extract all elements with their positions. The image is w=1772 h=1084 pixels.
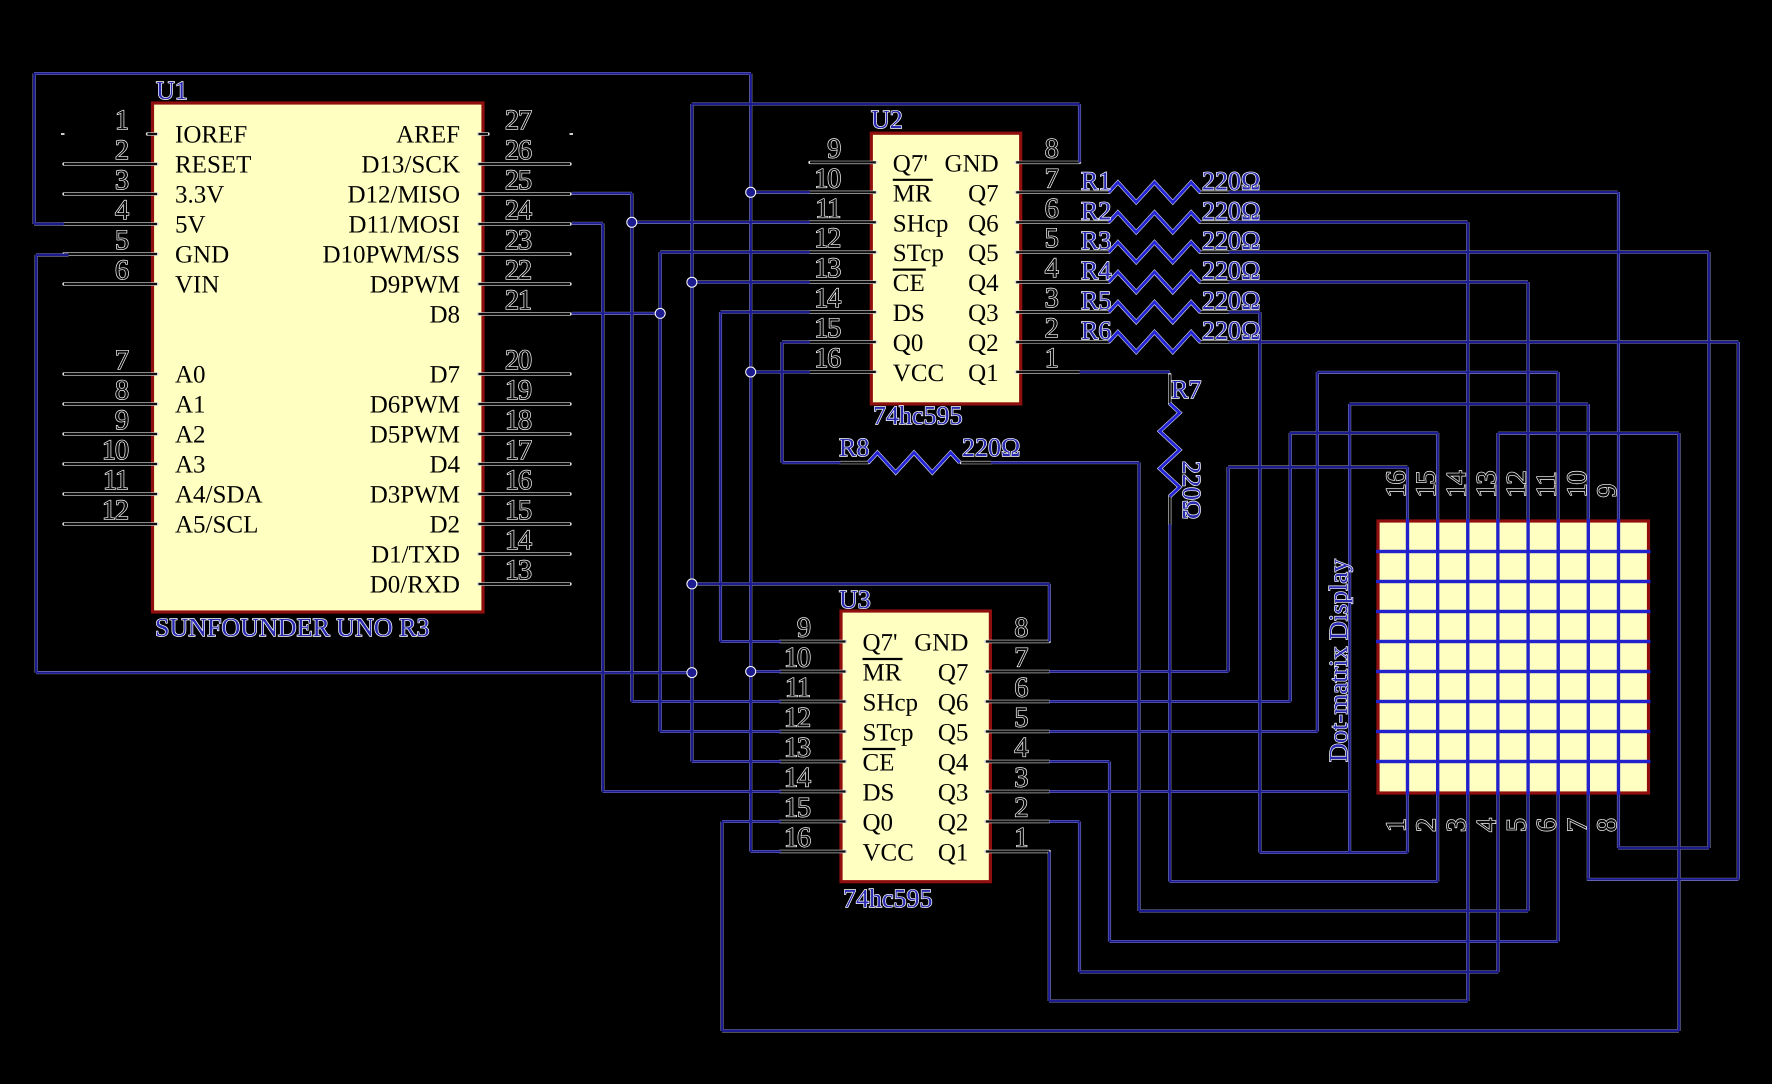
svg-text:D3PWM: D3PWM: [370, 482, 460, 509]
svg-text:15: 15: [814, 313, 840, 344]
svg-text:D10PWM/SS: D10PWM/SS: [322, 242, 460, 269]
svg-text:R6: R6: [1081, 316, 1111, 345]
svg-text:4: 4: [1471, 818, 1502, 832]
svg-text:D9PWM: D9PWM: [370, 272, 460, 299]
svg-text:U3: U3: [839, 585, 871, 614]
svg-text:4: 4: [1045, 253, 1059, 284]
svg-text:5: 5: [1502, 819, 1533, 832]
svg-text:13: 13: [784, 733, 810, 764]
svg-text:13: 13: [1471, 472, 1502, 498]
svg-text:A1: A1: [175, 392, 206, 419]
svg-text:2: 2: [115, 135, 128, 166]
svg-text:1: 1: [1045, 343, 1058, 374]
svg-text:Q7': Q7': [893, 150, 928, 177]
svg-text:VCC: VCC: [863, 840, 914, 867]
svg-text:D1/TXD: D1/TXD: [371, 542, 460, 569]
svg-text:9: 9: [115, 405, 128, 436]
svg-text:4: 4: [115, 195, 129, 226]
svg-text:13: 13: [814, 253, 840, 284]
svg-text:9: 9: [1592, 485, 1623, 498]
svg-text:A2: A2: [175, 422, 206, 449]
svg-text:1: 1: [115, 105, 128, 136]
svg-text:220Ω: 220Ω: [1177, 461, 1206, 519]
svg-text:Q5: Q5: [938, 720, 969, 747]
svg-text:GND: GND: [175, 242, 229, 269]
svg-text:Q1: Q1: [938, 840, 969, 867]
svg-text:4: 4: [1014, 733, 1028, 764]
svg-text:15: 15: [1411, 472, 1442, 498]
svg-text:16: 16: [814, 343, 841, 374]
svg-text:7: 7: [1014, 643, 1028, 674]
svg-text:SHcp: SHcp: [893, 210, 949, 237]
svg-text:Dot-matrix Display: Dot-matrix Display: [1324, 559, 1353, 762]
svg-text:7: 7: [1562, 818, 1593, 832]
svg-text:220Ω: 220Ω: [1202, 316, 1260, 345]
svg-text:Q5: Q5: [968, 240, 999, 267]
svg-text:16: 16: [505, 465, 532, 496]
svg-text:Q7: Q7: [968, 180, 999, 207]
svg-text:A0: A0: [175, 362, 206, 389]
svg-text:MR: MR: [893, 180, 932, 207]
svg-text:12: 12: [784, 703, 810, 734]
svg-text:12: 12: [814, 223, 840, 254]
svg-text:11: 11: [815, 193, 840, 224]
svg-text:D12/MISO: D12/MISO: [347, 182, 460, 209]
svg-text:10: 10: [102, 435, 128, 466]
svg-text:15: 15: [784, 793, 810, 824]
svg-text:Q0: Q0: [893, 330, 924, 357]
svg-text:D0/RXD: D0/RXD: [370, 572, 460, 599]
svg-text:1: 1: [1014, 823, 1027, 854]
svg-text:6: 6: [1014, 673, 1028, 704]
svg-text:R3: R3: [1081, 226, 1111, 255]
svg-text:5: 5: [1014, 703, 1027, 734]
svg-text:10: 10: [814, 163, 840, 194]
svg-text:21: 21: [505, 285, 531, 316]
svg-text:A3: A3: [175, 452, 206, 479]
svg-text:22: 22: [505, 255, 531, 286]
svg-text:27: 27: [505, 105, 532, 136]
svg-text:19: 19: [505, 375, 531, 406]
svg-text:D11/MOSI: D11/MOSI: [348, 212, 460, 239]
svg-text:25: 25: [505, 165, 531, 196]
svg-text:220Ω: 220Ω: [1202, 166, 1260, 195]
svg-text:R4: R4: [1081, 256, 1111, 285]
svg-text:12: 12: [102, 495, 128, 526]
svg-text:220Ω: 220Ω: [1202, 196, 1260, 225]
svg-text:Q7': Q7': [863, 630, 898, 657]
svg-text:3: 3: [115, 165, 128, 196]
svg-text:23: 23: [505, 225, 531, 256]
svg-text:DS: DS: [893, 300, 925, 327]
svg-text:Q6: Q6: [968, 210, 999, 237]
svg-text:6: 6: [115, 255, 129, 286]
svg-text:11: 11: [1532, 473, 1563, 498]
svg-text:220Ω: 220Ω: [1202, 286, 1260, 315]
svg-text:GND: GND: [945, 150, 999, 177]
svg-text:11: 11: [103, 465, 128, 496]
svg-text:MR: MR: [863, 660, 902, 687]
svg-text:13: 13: [505, 555, 531, 586]
svg-text:220Ω: 220Ω: [1202, 256, 1260, 285]
svg-text:Q6: Q6: [938, 690, 969, 717]
svg-text:26: 26: [505, 135, 532, 166]
svg-text:A5/SCL: A5/SCL: [175, 512, 258, 539]
svg-text:2: 2: [1045, 313, 1058, 344]
svg-text:11: 11: [785, 673, 810, 704]
svg-text:18: 18: [505, 405, 531, 436]
svg-text:5: 5: [1045, 223, 1058, 254]
svg-text:14: 14: [784, 763, 811, 794]
svg-text:220Ω: 220Ω: [1202, 226, 1260, 255]
svg-text:8: 8: [1045, 133, 1058, 164]
svg-text:2: 2: [1411, 819, 1442, 832]
svg-text:5V: 5V: [175, 212, 206, 239]
svg-text:7: 7: [115, 345, 129, 376]
svg-text:14: 14: [505, 525, 532, 556]
svg-text:16: 16: [784, 823, 811, 854]
svg-text:220Ω: 220Ω: [962, 433, 1020, 462]
svg-text:Q1: Q1: [968, 360, 999, 387]
svg-text:D13/SCK: D13/SCK: [361, 152, 460, 179]
svg-text:3: 3: [1441, 819, 1472, 832]
svg-text:Q3: Q3: [968, 300, 999, 327]
svg-text:20: 20: [505, 345, 531, 376]
svg-text:D7: D7: [429, 362, 460, 389]
svg-text:12: 12: [1502, 472, 1533, 498]
svg-text:R1: R1: [1081, 166, 1111, 195]
svg-text:SHcp: SHcp: [863, 690, 919, 717]
svg-text:2: 2: [1014, 793, 1027, 824]
svg-text:8: 8: [1014, 613, 1027, 644]
svg-text:STcp: STcp: [893, 240, 944, 267]
svg-text:D6PWM: D6PWM: [370, 392, 460, 419]
svg-text:Q4: Q4: [968, 270, 999, 297]
svg-text:Q3: Q3: [938, 780, 969, 807]
svg-text:9: 9: [797, 613, 810, 644]
svg-text:DS: DS: [863, 780, 895, 807]
svg-text:6: 6: [1045, 193, 1059, 224]
svg-text:GND: GND: [914, 630, 968, 657]
svg-text:RESET: RESET: [175, 152, 251, 179]
svg-text:R2: R2: [1081, 196, 1111, 225]
svg-text:Q2: Q2: [938, 810, 969, 837]
svg-text:D5PWM: D5PWM: [370, 422, 460, 449]
svg-text:14: 14: [1441, 471, 1472, 498]
svg-text:10: 10: [784, 643, 810, 674]
svg-text:Q7: Q7: [938, 660, 969, 687]
svg-text:R8: R8: [839, 433, 869, 462]
svg-text:3: 3: [1045, 283, 1058, 314]
svg-text:Q4: Q4: [938, 750, 969, 777]
svg-text:D2: D2: [429, 512, 460, 539]
svg-text:Q0: Q0: [863, 810, 894, 837]
svg-text:74hc595: 74hc595: [843, 884, 933, 913]
svg-text:3.3V: 3.3V: [175, 182, 224, 209]
svg-text:16: 16: [1381, 471, 1412, 498]
svg-text:14: 14: [814, 283, 841, 314]
svg-text:U1: U1: [156, 76, 188, 105]
svg-text:VCC: VCC: [893, 360, 944, 387]
svg-text:IOREF: IOREF: [175, 122, 247, 149]
svg-text:D4: D4: [429, 452, 460, 479]
svg-text:1: 1: [1381, 819, 1412, 832]
svg-text:7: 7: [1045, 163, 1059, 194]
svg-text:CE: CE: [863, 750, 895, 777]
svg-text:8: 8: [1592, 819, 1623, 832]
svg-text:R5: R5: [1081, 286, 1111, 315]
svg-text:10: 10: [1562, 472, 1593, 498]
svg-text:17: 17: [505, 435, 532, 466]
svg-text:6: 6: [1532, 818, 1563, 832]
svg-text:D8: D8: [429, 302, 460, 329]
svg-text:15: 15: [505, 495, 531, 526]
svg-text:9: 9: [827, 133, 840, 164]
svg-text:U2: U2: [871, 105, 903, 134]
svg-text:5: 5: [115, 225, 128, 256]
svg-text:CE: CE: [893, 270, 925, 297]
svg-text:3: 3: [1014, 763, 1027, 794]
svg-text:VIN: VIN: [175, 272, 219, 299]
svg-text:Q2: Q2: [968, 330, 999, 357]
svg-text:74hc595: 74hc595: [873, 401, 963, 430]
svg-text:AREF: AREF: [396, 122, 460, 149]
svg-text:R7: R7: [1171, 375, 1201, 404]
svg-text:A4/SDA: A4/SDA: [175, 482, 263, 509]
svg-text:STcp: STcp: [863, 720, 914, 747]
svg-text:24: 24: [505, 195, 532, 226]
svg-text:8: 8: [115, 375, 128, 406]
svg-text:SUNFOUNDER UNO R3: SUNFOUNDER UNO R3: [155, 613, 429, 642]
